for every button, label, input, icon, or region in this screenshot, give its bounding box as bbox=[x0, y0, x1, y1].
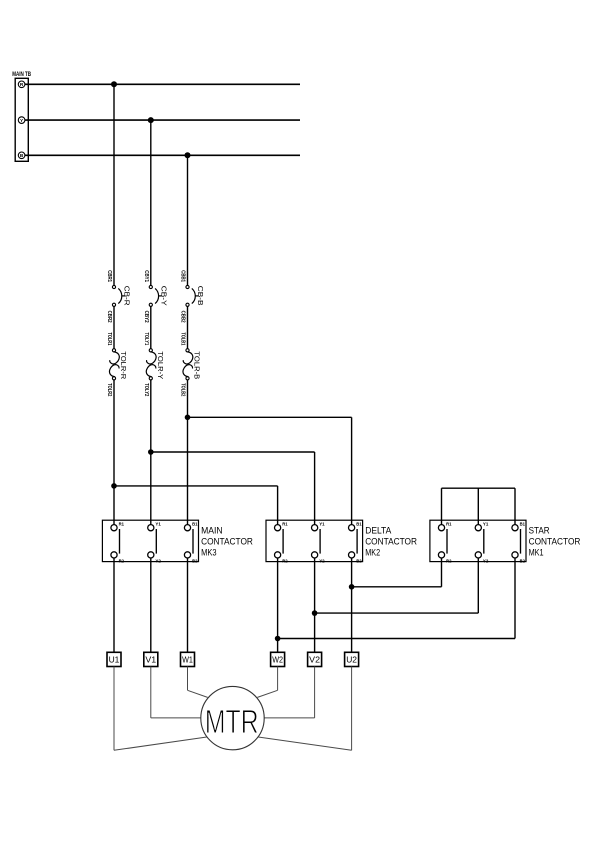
wire contactor MK2 R2 to terminal W2 bbox=[277, 558, 279, 652]
svg-text:CONTACTOR: CONTACTOR bbox=[529, 537, 581, 547]
overload relay TOLR-Y bbox=[146, 349, 156, 380]
svg-text:STAR: STAR bbox=[529, 526, 550, 536]
svg-text:TOLB2: TOLB2 bbox=[180, 383, 186, 396]
svg-text:B1: B1 bbox=[356, 521, 362, 526]
svg-text:B1: B1 bbox=[520, 521, 526, 526]
wire TOLR-Y to contactor MK3 Y1 bbox=[150, 380, 152, 525]
svg-text:W1: W1 bbox=[182, 655, 193, 665]
svg-text:W2: W2 bbox=[272, 655, 283, 665]
wire contactor MK2 B2 to terminal U2 bbox=[351, 558, 353, 652]
terminal box U1 bbox=[107, 652, 121, 666]
wire link MK1 R2 to motor winding wire bbox=[352, 586, 442, 588]
wire contactor MK3 R2 to terminal U1 bbox=[113, 558, 115, 652]
svg-text:V2: V2 bbox=[309, 655, 320, 665]
wire B-phase bus from MAIN TB bbox=[25, 154, 300, 156]
svg-text:TOLY2: TOLY2 bbox=[143, 383, 149, 396]
junction link to terminal wire bbox=[349, 584, 355, 590]
svg-text:Y1: Y1 bbox=[155, 521, 161, 526]
junction Y-phase tap bbox=[148, 117, 154, 123]
svg-text:CB-R: CB-R bbox=[123, 286, 130, 306]
wire U2 to motor bbox=[258, 667, 351, 751]
svg-text:B1: B1 bbox=[192, 521, 198, 526]
svg-text:B2: B2 bbox=[356, 558, 362, 563]
wire CB-B to TOLR-B bbox=[187, 306, 189, 348]
terminal box W2 bbox=[271, 652, 285, 666]
label MAIN CONTACTOR MK3 bbox=[201, 526, 253, 558]
svg-text:CBR1: CBR1 bbox=[106, 270, 112, 282]
svg-text:MAIN: MAIN bbox=[201, 526, 223, 536]
wire star-point drop to MK1 Y1 bbox=[477, 488, 479, 524]
svg-text:Y2: Y2 bbox=[319, 558, 325, 563]
svg-text:Y2: Y2 bbox=[155, 558, 161, 563]
svg-text:CBR2: CBR2 bbox=[106, 311, 112, 323]
wire star-point bus of MK1 bbox=[442, 487, 516, 489]
svg-text:R1: R1 bbox=[282, 521, 288, 526]
junction R-phase tap bbox=[111, 81, 117, 87]
junction link to terminal wire bbox=[312, 610, 318, 616]
svg-text:R1: R1 bbox=[446, 521, 452, 526]
junction B-phase tap bbox=[185, 152, 191, 158]
wire contactor MK2 Y2 to terminal V2 bbox=[314, 558, 316, 652]
wire R-phase feed across to delta contactor MK2 bbox=[114, 485, 278, 487]
svg-text:CB-Y: CB-Y bbox=[160, 286, 167, 306]
wire contactor MK3 Y2 to terminal V1 bbox=[150, 558, 152, 652]
svg-text:U1: U1 bbox=[109, 655, 120, 665]
wire contactor MK1 B2 drop bbox=[514, 558, 516, 639]
wire contactor MK1 R2 drop bbox=[441, 558, 443, 587]
svg-text:CONTACTOR: CONTACTOR bbox=[365, 537, 417, 547]
contactor MK2 (DELTA) bbox=[266, 520, 363, 563]
label STAR CONTACTOR MK1 bbox=[529, 526, 581, 558]
svg-text:TOLR-R: TOLR-R bbox=[119, 351, 126, 379]
terminal R of MAIN TB bbox=[18, 81, 25, 88]
junction Y-phase feed to delta contactor bbox=[148, 449, 154, 455]
junction R-phase feed to delta contactor bbox=[111, 483, 117, 489]
svg-text:R: R bbox=[20, 82, 24, 88]
svg-text:TOLB1: TOLB1 bbox=[180, 333, 186, 346]
wire W1 to motor bbox=[188, 667, 208, 698]
svg-text:B2: B2 bbox=[520, 558, 526, 563]
terminal box U2 bbox=[345, 652, 359, 666]
contactor MK1 (STAR) bbox=[430, 520, 526, 563]
svg-text:Y1: Y1 bbox=[319, 521, 325, 526]
terminal block MAIN TB bbox=[15, 78, 28, 161]
overload relay TOLR-R bbox=[109, 349, 119, 380]
wire B-phase feed across to delta contactor MK2 bbox=[188, 416, 352, 418]
svg-text:MK1: MK1 bbox=[529, 547, 544, 557]
terminal Y of MAIN TB bbox=[18, 117, 25, 124]
svg-text:Y2: Y2 bbox=[483, 558, 489, 563]
wire B-phase drop to breaker CB-B bbox=[187, 155, 189, 285]
wire link MK1 Y2 to motor winding wire bbox=[315, 612, 479, 614]
svg-text:TOLR1: TOLR1 bbox=[106, 333, 112, 346]
svg-text:CB-B: CB-B bbox=[196, 286, 203, 306]
svg-text:R2: R2 bbox=[119, 558, 125, 563]
circuit breaker CB-B bbox=[186, 285, 199, 306]
svg-text:MAIN TB: MAIN TB bbox=[12, 71, 31, 78]
svg-text:MK3: MK3 bbox=[201, 547, 217, 557]
svg-text:MTR: MTR bbox=[205, 704, 259, 741]
svg-text:TOLR-Y: TOLR-Y bbox=[156, 351, 163, 379]
svg-text:U2: U2 bbox=[346, 655, 357, 665]
svg-text:CBB2: CBB2 bbox=[180, 311, 186, 323]
wire contactor MK1 Y2 drop bbox=[477, 558, 479, 613]
wire R-phase drop to breaker CB-R bbox=[113, 84, 115, 285]
wire Y-phase feed across to delta contactor MK2 bbox=[151, 451, 315, 453]
label DELTA CONTACTOR MK2 bbox=[365, 526, 417, 558]
terminal box W1 bbox=[181, 652, 195, 666]
svg-text:CBY2: CBY2 bbox=[143, 311, 149, 323]
svg-text:CONTACTOR: CONTACTOR bbox=[201, 537, 253, 547]
wire star-point drop to MK1 B1 bbox=[514, 488, 516, 524]
svg-text:TOLY1: TOLY1 bbox=[143, 333, 149, 346]
wire V2 to motor bbox=[264, 667, 314, 718]
wire V1 to motor bbox=[151, 667, 201, 718]
svg-text:R2: R2 bbox=[282, 558, 288, 563]
svg-text:B2: B2 bbox=[192, 558, 198, 563]
wire U1 to motor bbox=[114, 667, 207, 751]
overload relay TOLR-B bbox=[183, 349, 193, 380]
svg-text:R1: R1 bbox=[119, 521, 125, 526]
terminal box V1 bbox=[144, 652, 158, 666]
wire Y-phase bus from MAIN TB bbox=[25, 119, 300, 121]
svg-text:TOLR-B: TOLR-B bbox=[193, 351, 200, 379]
wire B-phase feed drop to delta contactor MK2 bbox=[351, 417, 353, 524]
wire TOLR-R to contactor MK3 R1 bbox=[113, 380, 115, 525]
wire Y-phase drop to breaker CB-Y bbox=[150, 120, 152, 285]
svg-text:V1: V1 bbox=[145, 655, 156, 665]
svg-text:TOLR2: TOLR2 bbox=[106, 383, 112, 396]
svg-text:Y1: Y1 bbox=[483, 521, 489, 526]
wire R-phase feed drop to delta contactor MK2 bbox=[277, 486, 279, 525]
wire TOLR-B to contactor MK3 B1 bbox=[187, 380, 189, 525]
junction link to terminal wire bbox=[275, 636, 281, 642]
wire contactor MK3 B2 to terminal W1 bbox=[187, 558, 189, 652]
wire R-phase bus from MAIN TB bbox=[25, 83, 300, 85]
wire CB-Y to TOLR-Y bbox=[150, 306, 152, 348]
svg-text:B: B bbox=[20, 153, 24, 159]
circuit breaker CB-R bbox=[112, 285, 125, 306]
circuit breaker CB-Y bbox=[149, 285, 162, 306]
svg-text:CBY1: CBY1 bbox=[143, 270, 149, 282]
terminal B of MAIN TB bbox=[18, 152, 25, 159]
wire link MK1 B2 to motor winding wire bbox=[278, 638, 515, 640]
svg-text:CBB1: CBB1 bbox=[180, 270, 186, 282]
svg-text:R2: R2 bbox=[446, 558, 452, 563]
terminal box V2 bbox=[308, 652, 322, 666]
wire CB-R to TOLR-R bbox=[113, 306, 115, 348]
svg-text:MK2: MK2 bbox=[365, 547, 380, 557]
contactor MK3 (MAIN) bbox=[102, 520, 198, 563]
wire W2 to motor bbox=[257, 667, 277, 698]
junction B-phase feed to delta contactor bbox=[185, 415, 191, 421]
wire star-point drop to MK1 R1 bbox=[441, 488, 443, 524]
svg-text:DELTA: DELTA bbox=[365, 526, 391, 536]
motor MTR bbox=[201, 686, 264, 749]
wire Y-phase feed drop to delta contactor MK2 bbox=[314, 452, 316, 525]
